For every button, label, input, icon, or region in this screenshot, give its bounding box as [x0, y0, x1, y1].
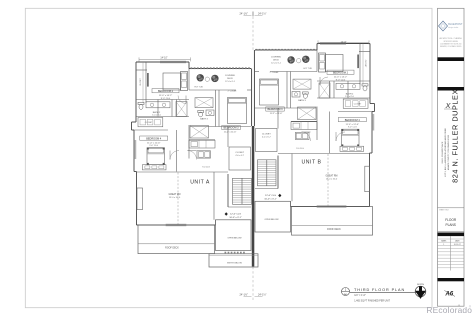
- svg-text:THIRD FLOOR PLAN: THIRD FLOOR PLAN: [354, 288, 405, 292]
- svg-text:24'-1½": 24'-1½": [258, 293, 267, 297]
- svg-text:4'-0 x 6'-7: 4'-0 x 6'-7: [262, 137, 272, 139]
- svg-text:10'-0" x 3'-1": 10'-0" x 3'-1": [229, 217, 241, 219]
- svg-text:CLOSET: CLOSET: [145, 122, 153, 124]
- svg-text:9'-0" CLG: 9'-0" CLG: [348, 127, 357, 129]
- svg-text:DECK: DECK: [227, 78, 233, 80]
- svg-text:12'-6" CLG: 12'-6" CLG: [265, 195, 276, 197]
- svg-text:DECK: DECK: [273, 60, 279, 62]
- svg-text:REcolorado: REcolorado: [426, 305, 472, 315]
- svg-text:9'-0" CLG: 9'-0" CLG: [149, 145, 158, 147]
- svg-text:10'-0" x 3'-1": 10'-0" x 3'-1": [264, 198, 276, 200]
- svg-text:9'-0 CLG: 9'-0 CLG: [296, 148, 304, 150]
- svg-text:OPEN BELOW: OPEN BELOW: [265, 219, 279, 221]
- svg-text:ROOF DECK: ROOF DECK: [165, 247, 179, 249]
- svg-text:5'-0 x 8'-0: 5'-0 x 8'-0: [345, 96, 355, 98]
- svg-text:10.30.17: 10.30.17: [454, 244, 461, 246]
- svg-text:824 N. FULLER PLACE: 824 N. FULLER PLACE: [441, 141, 444, 163]
- svg-text:11'-0" x 12'-6": 11'-0" x 12'-6": [346, 124, 360, 126]
- svg-text:OPEN BELOW: OPEN BELOW: [228, 238, 242, 240]
- svg-text:9'-0 CLG: 9'-0 CLG: [202, 167, 210, 169]
- svg-text:CLOSET: CLOSET: [140, 77, 142, 85]
- svg-text:12'-6" CLG: 12'-6" CLG: [230, 214, 241, 216]
- svg-text:A6: A6: [444, 291, 453, 298]
- svg-text:BATH 2: BATH 2: [153, 111, 161, 114]
- svg-text:design studio: design studio: [448, 26, 458, 29]
- svg-text:BATH 2: BATH 2: [346, 92, 354, 95]
- svg-text:INTERIOR DESIGN: INTERIOR DESIGN: [444, 41, 459, 43]
- svg-text:LOT 2, BLK 4, ANDERSON AT BROA: LOT 2, BLK 4, ANDERSON AT BROADLANDS SUB…: [444, 128, 447, 177]
- svg-text:BATH 3: BATH 3: [298, 99, 306, 102]
- svg-text:HOT TUB: HOT TUB: [194, 86, 203, 88]
- svg-text:24'-1½": 24'-1½": [258, 12, 267, 16]
- svg-text:SHEET TITLE: SHEET TITLE: [439, 210, 448, 212]
- svg-text:11'-2" x 11'-6": 11'-2" x 11'-6": [270, 113, 283, 115]
- svg-text:12'-4 x 6'-1: 12'-4 x 6'-1: [225, 81, 236, 83]
- svg-text:1,465 SQ FT FINISHED PER UNIT: 1,465 SQ FT FINISHED PER UNIT: [354, 301, 390, 303]
- svg-text:GREAT RM: GREAT RM: [326, 175, 338, 178]
- svg-text:COVERED: COVERED: [225, 75, 236, 77]
- svg-text:ENTRY BELOW: ENTRY BELOW: [227, 263, 242, 265]
- svg-text:ADAMS COUNTY, COLORADO 80229: ADAMS COUNTY, COLORADO 80229: [447, 134, 450, 170]
- svg-text:12'-4 x 6'-1: 12'-4 x 6'-1: [271, 63, 282, 65]
- svg-text:BEDROOM 3: BEDROOM 3: [223, 127, 239, 130]
- svg-text:11'-0" x 14'-2": 11'-0" x 14'-2": [334, 76, 348, 78]
- svg-text:19'-4 x 16'-0: 19'-4 x 16'-0: [169, 197, 181, 199]
- svg-text:1: 1: [443, 244, 444, 246]
- svg-text:ROOF DECK: ROOF DECK: [327, 229, 341, 231]
- svg-text:24'-1½": 24'-1½": [240, 12, 249, 16]
- svg-text:19'-4 x 16'-0: 19'-4 x 16'-0: [326, 179, 338, 181]
- svg-text:24'-1½": 24'-1½": [240, 293, 249, 297]
- svg-text:COVERED: COVERED: [271, 57, 282, 59]
- svg-text:BEDROOM 2: BEDROOM 2: [158, 90, 174, 93]
- svg-text:11'-2" x 11'-6": 11'-2" x 11'-6": [224, 131, 237, 133]
- svg-text:BEDROOM 3: BEDROOM 3: [267, 108, 283, 111]
- svg-text:9'-0" CLG: 9'-0" CLG: [161, 98, 171, 100]
- svg-text:11'-0" x 14'-2": 11'-0" x 14'-2": [159, 95, 173, 97]
- svg-text:CLOSET: CLOSET: [262, 133, 271, 135]
- svg-text:9'-0" CLG: 9'-0" CLG: [336, 79, 346, 81]
- svg-text:BEDROOM 2: BEDROOM 2: [333, 71, 349, 74]
- svg-text:UNIT B: UNIT B: [302, 160, 322, 166]
- svg-text:1/4" = 1'-0": 1/4" = 1'-0": [354, 294, 366, 297]
- svg-text:4'-0 x 6'-7: 4'-0 x 6'-7: [235, 155, 245, 157]
- svg-text:BEDROOM 4: BEDROOM 4: [345, 119, 361, 122]
- svg-text:GREAT RM: GREAT RM: [169, 193, 181, 196]
- svg-text:CLOSET: CLOSET: [235, 152, 244, 154]
- svg-text:2' CLEAR: 2' CLEAR: [270, 71, 279, 74]
- svg-text:2' CLEAR: 2' CLEAR: [228, 90, 237, 93]
- svg-text:PLANS: PLANS: [445, 223, 455, 227]
- svg-text:FLOOR: FLOOR: [445, 218, 457, 222]
- svg-text:5'-0 x 8'-0: 5'-0 x 8'-0: [152, 115, 162, 117]
- svg-text:CLOSET: CLOSET: [364, 60, 366, 68]
- svg-text:14'-0": 14'-0": [341, 42, 347, 44]
- svg-text:BATH 3: BATH 3: [200, 118, 208, 121]
- svg-text:BEDROOM 4: BEDROOM 4: [146, 137, 162, 140]
- svg-text:11'-0" x 12'-6": 11'-0" x 12'-6": [147, 142, 161, 144]
- svg-text:CLOSET: CLOSET: [354, 103, 362, 105]
- svg-text:UNIT A: UNIT A: [190, 180, 210, 186]
- svg-text:HOT TUB: HOT TUB: [303, 68, 312, 70]
- svg-text:BLUEPOINT: BLUEPOINT: [448, 23, 463, 26]
- svg-text:824 N. FULLER DUPLEX: 824 N. FULLER DUPLEX: [451, 89, 460, 183]
- svg-text:14'-10": 14'-10": [160, 58, 167, 60]
